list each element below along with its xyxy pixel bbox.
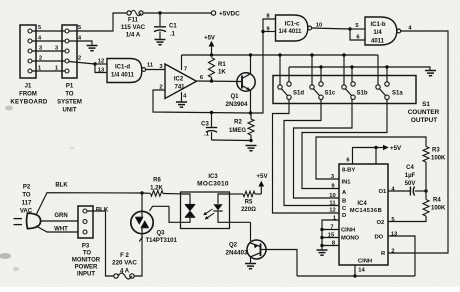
junction node C1 tap	[158, 11, 161, 14]
wire C4 to R3/R4 node	[415, 190, 426, 192]
svg-text:5: 5	[78, 25, 81, 31]
resistor R1	[209, 58, 215, 82]
pin label 7	[330, 225, 333, 231]
svg-text:MOC3010: MOC3010	[197, 181, 229, 188]
pin label 4	[408, 26, 412, 32]
svg-text:2N3904: 2N3904	[225, 101, 248, 108]
label CINH bottom	[358, 259, 372, 265]
junction pin15	[320, 236, 323, 239]
connector J1 pins	[28, 29, 32, 73]
label C4 1uF 50V	[405, 165, 416, 187]
svg-text:2: 2	[78, 56, 81, 62]
svg-text:IC1-b: IC1-b	[371, 22, 386, 28]
pin label 3	[159, 64, 163, 70]
phototriac in IC3	[185, 205, 195, 218]
wire J1-P1 row 2	[32, 60, 65, 62]
junction node BLK/R6/Q3	[140, 191, 143, 194]
svg-text:MONO: MONO	[341, 236, 360, 242]
svg-text:1: 1	[38, 66, 41, 72]
svg-text:741: 741	[174, 85, 185, 91]
supply arrow +5V at IC4	[376, 145, 402, 152]
pin label 13	[98, 68, 105, 74]
wire bus to Q2 base	[266, 250, 297, 277]
svg-text:.1: .1	[170, 32, 176, 38]
wire bus drop S1c right	[320, 67, 322, 82]
wire Q1 emitter down	[250, 91, 252, 114]
svg-text:1K: 1K	[218, 70, 226, 76]
nand gate IC1-c	[276, 15, 312, 41]
wire BLK hot	[36, 193, 142, 215]
svg-text:IN1: IN1	[342, 180, 352, 186]
label S1 COUNTER OUTPUT	[408, 101, 440, 124]
capacitor C1	[154, 27, 166, 39]
ground at P1 pin4	[87, 46, 98, 51]
wire IC4 grounded pins 1-7-15-8	[322, 220, 339, 250]
junction node C3 top	[210, 111, 213, 114]
wire Q3 MT2	[141, 193, 143, 234]
wire rail drop S1b left	[343, 55, 345, 85]
label F11 115 VAC 1/4 A	[121, 18, 146, 39]
wire IC3 led cathode out	[218, 211, 230, 222]
label GRN	[54, 213, 67, 219]
plug P2	[14, 213, 41, 228]
junction node IC1-d input	[93, 62, 96, 65]
svg-text:CINH: CINH	[341, 228, 355, 234]
switch S1b	[342, 82, 368, 100]
label C1 .1	[169, 24, 177, 38]
wire S1a common to IC4 A	[302, 100, 387, 189]
svg-text:2: 2	[39, 56, 42, 62]
label R5 220ohm	[241, 200, 256, 214]
triac Q3 T14PT3101	[131, 211, 153, 233]
wire F2 to Q3	[134, 234, 142, 276]
svg-text:S1d: S1d	[293, 91, 304, 97]
label R1 1K	[218, 62, 226, 76]
wire Q2 collector to ground	[250, 257, 252, 263]
junction node IC1-c pins	[261, 30, 264, 33]
svg-text:1MEG: 1MEG	[229, 128, 246, 134]
junction bus S1c	[319, 65, 322, 68]
svg-text:+5V: +5V	[256, 173, 268, 180]
svg-text:Q1: Q1	[230, 94, 239, 100]
junction node R2 bottom	[249, 139, 252, 142]
wire +5V rail	[182, 54, 379, 56]
connector P3 pins	[83, 209, 87, 234]
svg-text:+5V: +5V	[204, 36, 215, 42]
svg-text:SYSTEM: SYSTEM	[57, 100, 82, 106]
label Q2 2N4403	[225, 243, 248, 257]
svg-text:T14PT3101: T14PT3101	[146, 238, 178, 244]
label R2 1MEG	[229, 120, 246, 135]
svg-text:S1: S1	[422, 101, 430, 108]
terminal +5VDC	[211, 11, 240, 18]
label DO	[375, 235, 384, 241]
svg-text:2N4403: 2N4403	[225, 250, 248, 257]
capacitor C4	[410, 187, 414, 196]
svg-text:220Ω: 220Ω	[241, 207, 256, 213]
svg-text:.1: .1	[204, 132, 210, 138]
label CINH left	[341, 228, 355, 234]
wire IC2 pin7 to +5V rail	[181, 55, 183, 70]
resistor R6	[142, 191, 181, 197]
wire IC1-b pin6 bracket	[350, 29, 365, 40]
svg-text:F11: F11	[128, 18, 139, 24]
wire IC2 pin4 to ground	[181, 92, 183, 102]
pin label 12	[98, 59, 104, 65]
svg-text:D: D	[342, 213, 346, 219]
pin label 9	[266, 27, 270, 33]
ground below Q2	[245, 264, 256, 269]
pin labels J1 side	[38, 25, 42, 72]
svg-text:P2: P2	[23, 185, 31, 191]
wire S1d common to IC4 D	[273, 100, 340, 214]
wire IC2 output pin6	[197, 80, 243, 83]
svg-text:+5V: +5V	[390, 145, 402, 152]
pin label 6	[346, 158, 350, 164]
wire IC1-c pin9 stub	[263, 31, 276, 33]
svg-text:DO: DO	[375, 235, 384, 241]
wire R3 to IC4 IN1	[316, 137, 426, 179]
fuse F2	[114, 273, 134, 279]
pin label 14	[358, 268, 365, 274]
wire IC3 right top internal	[218, 194, 230, 204]
label R	[381, 251, 386, 257]
label R6 1.2K	[150, 178, 163, 192]
junction node Q1 collector rail	[249, 53, 252, 56]
svg-text:3: 3	[55, 46, 58, 52]
junction node pin14	[353, 274, 356, 277]
capacitor C3	[206, 128, 217, 141]
svg-text:UNIT: UNIT	[63, 108, 77, 114]
svg-text:11: 11	[147, 63, 154, 69]
label IN1	[342, 180, 352, 186]
wire IC1-d pin 13	[95, 64, 107, 73]
label P1 TO SYSTEM UNIT	[57, 84, 82, 114]
wire J1-P1 row 1	[32, 70, 65, 72]
junction bus S1a	[385, 65, 388, 68]
svg-text:MONITOR: MONITOR	[72, 258, 101, 264]
svg-text:IC2: IC2	[174, 77, 184, 83]
label IC2 741	[174, 77, 185, 91]
ground at switch bus	[425, 71, 436, 76]
ground below C1	[155, 40, 166, 45]
svg-text:1/4 4011: 1/4 4011	[111, 73, 135, 79]
svg-text:IC3: IC3	[208, 174, 218, 180]
wire C3 bottom to R2 bottom	[212, 139, 252, 142]
pin label 10	[329, 193, 335, 199]
pin label 13	[391, 232, 398, 238]
wire IC1-b pin5 stub	[350, 28, 365, 30]
wire bus drop S1a right	[386, 67, 388, 82]
wire pin14 bus	[297, 275, 415, 277]
wire Q2 emitter from IC3	[250, 222, 252, 241]
svg-text:KEYBOARD: KEYBOARD	[10, 99, 48, 106]
svg-text:3: 3	[39, 46, 42, 52]
label J1 FROM KEYBOARD	[10, 84, 48, 106]
wire IC1-b output to IC4 pin2	[388, 31, 448, 253]
wire IC1-c output to IC1-b	[312, 28, 350, 29]
svg-text:POWER: POWER	[75, 265, 98, 271]
wire S1c common to IC4 C	[284, 100, 339, 206]
wire rail drop S1d left	[279, 55, 281, 85]
svg-text:R2: R2	[234, 120, 242, 126]
svg-text:R5: R5	[245, 200, 253, 206]
svg-text:O2: O2	[377, 220, 385, 226]
svg-text:1µF: 1µF	[405, 173, 416, 179]
label C3 .1	[201, 122, 209, 138]
wire C3 upper lead	[211, 113, 213, 127]
svg-text:B: B	[342, 199, 346, 205]
ic IC4 MC14536B box	[339, 164, 388, 265]
svg-text:220 VAC: 220 VAC	[112, 260, 137, 267]
connector P3 box	[78, 206, 93, 238]
wire GRN	[40, 220, 78, 222]
svg-text:IC1-d: IC1-d	[115, 65, 130, 71]
switch S1a	[376, 82, 404, 100]
wire fuse to +5VDC terminal	[143, 12, 211, 14]
pin label 2	[391, 249, 394, 255]
label 8-BY	[342, 168, 355, 174]
svg-text:4011: 4011	[371, 39, 385, 45]
label P3 TO MONITOR POWER INPUT	[72, 244, 101, 278]
svg-text:S1a: S1a	[392, 91, 403, 97]
label IC3 MOC3010	[197, 174, 229, 188]
wire WHT	[36, 226, 78, 232]
pin label 3	[331, 174, 335, 180]
svg-text:50V: 50V	[405, 181, 416, 187]
svg-text:1.2K: 1.2K	[150, 185, 163, 191]
pin labels P1 side	[55, 25, 82, 72]
junction node +5V pin16	[374, 146, 377, 149]
supply arrow +5V at R5	[256, 173, 268, 187]
label P2 TO 117 VAC	[20, 185, 33, 215]
svg-text:Q2: Q2	[229, 243, 238, 249]
transistor Q2 2N4403	[247, 240, 266, 259]
wire ground bus of switches	[289, 67, 430, 70]
svg-text:R4: R4	[433, 198, 441, 204]
svg-text:F 2: F 2	[120, 253, 129, 259]
label BLK	[55, 183, 68, 189]
wire IC4 pin6 to +5V	[353, 148, 377, 165]
wire IC1-d pin 12	[95, 63, 107, 65]
fuse F11	[127, 10, 143, 16]
svg-text:10: 10	[329, 193, 335, 199]
switch S1c	[310, 82, 336, 100]
resistor R3	[423, 147, 429, 192]
svg-text:IC4: IC4	[357, 201, 367, 207]
svg-text:2: 2	[391, 249, 394, 255]
svg-text:12: 12	[98, 59, 104, 65]
svg-text:C3: C3	[201, 122, 209, 128]
label D	[342, 213, 346, 219]
junction node emitter feedback	[249, 111, 252, 114]
svg-text:13: 13	[391, 232, 398, 238]
pin label 7	[184, 67, 187, 73]
label R4 100K	[431, 198, 446, 212]
pin label 8	[332, 241, 336, 247]
svg-text:R6: R6	[153, 178, 161, 184]
pin label 5	[391, 217, 395, 223]
wire IC1-d output to IC2 pin3	[146, 69, 165, 71]
svg-text:COUNTER: COUNTER	[408, 109, 440, 116]
svg-text:1: 1	[55, 66, 58, 72]
wire IC3 to Q2	[230, 221, 251, 223]
wire IC3 left top internal	[181, 194, 191, 204]
pin label 2	[159, 85, 162, 91]
pin label 15	[328, 233, 335, 239]
svg-text:INPUT: INPUT	[77, 272, 95, 278]
connector P1 (system unit) box	[62, 25, 77, 78]
pin label 4	[183, 94, 187, 100]
svg-text:11: 11	[329, 201, 336, 207]
wire J1-P1 row 5	[32, 30, 65, 32]
svg-text:BLK: BLK	[55, 183, 68, 189]
wire J1-P1 row 4	[32, 40, 65, 42]
label Q1 2N3904	[225, 94, 248, 108]
svg-text:P1: P1	[66, 84, 74, 90]
connector J1 (keyboard) box	[20, 25, 36, 78]
svg-text:13: 13	[98, 68, 105, 74]
svg-text:1/4: 1/4	[373, 30, 382, 36]
junction rail S1b	[342, 53, 345, 56]
resistor R4	[423, 191, 429, 216]
wire R5 to +5V arrow	[255, 186, 261, 194]
junction rail S1c	[310, 53, 313, 56]
nand gate IC1-b	[365, 17, 401, 45]
switch S1d	[278, 82, 305, 100]
junction node rail/R1	[210, 53, 213, 56]
label F2 220 VAC 4 A	[112, 253, 137, 275]
label IC1-b 1/4 4011	[371, 22, 386, 45]
led in IC3	[213, 204, 222, 211]
pin label 5	[355, 23, 359, 29]
label WHT	[54, 227, 68, 233]
svg-text:TO: TO	[65, 92, 74, 98]
wire IC4 pin14 stub	[354, 265, 356, 276]
pin label 1	[333, 215, 337, 221]
pin label 11	[329, 201, 336, 207]
nand gate IC1-d	[107, 59, 146, 83]
junction bus S1b	[350, 65, 353, 68]
wire J1-P1 row 3	[32, 50, 65, 52]
label IC4 MC14536B	[350, 201, 382, 214]
ground below R2	[246, 146, 257, 151]
pin label 6	[356, 35, 360, 41]
svg-text:S1b: S1b	[357, 91, 368, 97]
svg-text:S1c: S1c	[325, 91, 336, 97]
wire IC3 triac to gate pin	[181, 217, 191, 222]
label Q3 T14PT3101	[139, 231, 177, 245]
svg-text:OUTPUT: OUTPUT	[411, 117, 437, 124]
junction pin8	[320, 244, 323, 247]
pin label 6	[200, 75, 204, 81]
svg-text:4 A: 4 A	[120, 269, 130, 275]
svg-text:O1: O1	[379, 189, 388, 195]
wire P1 pin4 to ground	[69, 41, 92, 45]
junction node C4/R3/R4	[424, 189, 427, 192]
svg-text:IC1-c: IC1-c	[285, 22, 300, 28]
svg-text:115 VAC: 115 VAC	[121, 24, 146, 31]
wire IC3 to R5	[230, 193, 244, 195]
label IC1-c 1/4 4011	[278, 22, 302, 36]
label MONO	[341, 236, 360, 242]
svg-text:J1: J1	[25, 84, 32, 90]
wire bus drop S1d right	[288, 67, 290, 82]
svg-text:14: 14	[358, 268, 365, 274]
svg-text:R3: R3	[432, 148, 440, 154]
pin label 10	[316, 23, 322, 29]
wire IC2 pin2 feedback	[153, 90, 251, 113]
svg-text:WHT: WHT	[54, 227, 68, 233]
wire P1 pin5 to fuse F1	[69, 13, 127, 31]
label C	[342, 206, 347, 212]
svg-text:P3: P3	[82, 244, 90, 250]
label R3 100K	[431, 148, 446, 162]
svg-text:12: 12	[329, 208, 335, 214]
svg-text:1/4 4011: 1/4 4011	[278, 29, 302, 35]
wire rail corner drop S1a left	[377, 55, 379, 85]
dashed box S1	[273, 76, 416, 104]
op-amp IC2 741	[165, 64, 197, 99]
svg-text:Q3: Q3	[156, 231, 165, 237]
supply arrow +5V at rail	[204, 36, 215, 56]
svg-text:FROM: FROM	[19, 92, 37, 98]
wire Q1 collector to rail	[250, 55, 252, 74]
junction rail S1d	[278, 53, 281, 56]
pin label 12	[329, 208, 335, 214]
label O2	[377, 220, 385, 226]
light arrows	[203, 209, 214, 219]
wire IC1-c pin8 bracket	[263, 19, 276, 32]
svg-text:R1: R1	[218, 62, 226, 68]
wire C1 upper lead	[159, 13, 161, 26]
wire IC4 pin4 to C4	[388, 190, 410, 192]
svg-text:1/4 A: 1/4 A	[126, 32, 141, 39]
svg-text:5: 5	[38, 25, 41, 31]
resistor R2	[248, 113, 254, 141]
pin label 8	[266, 14, 270, 20]
label BLK at P3	[96, 208, 109, 214]
pin label 4	[391, 186, 395, 192]
junction node IC1-b input	[348, 27, 351, 30]
wire IC4 pin5 to R4 bottom	[388, 216, 426, 222]
svg-text:100K: 100K	[431, 206, 446, 212]
wire S1b common to IC4 B	[294, 100, 353, 199]
wire rail drop S1c left	[311, 55, 313, 85]
transistor Q1 2N3904	[237, 73, 255, 91]
pin label 11	[147, 63, 154, 69]
label B	[342, 199, 346, 205]
optocoupler IC3 box	[181, 192, 230, 229]
wire Q3 gate to IC3	[150, 206, 181, 222]
ground at IC4 input pins	[317, 250, 328, 255]
wire IC4 pin13 DO down	[388, 236, 415, 276]
svg-text:117: 117	[22, 201, 32, 207]
svg-text:TO: TO	[83, 251, 92, 257]
svg-text:C4: C4	[406, 165, 414, 171]
svg-text:TO: TO	[22, 193, 31, 199]
wire emitter node to IC1-c input	[251, 32, 263, 114]
svg-text:GRN: GRN	[54, 213, 67, 219]
junction pin7	[320, 228, 323, 231]
pin label 9	[331, 184, 335, 190]
svg-text:CINH: CINH	[358, 259, 372, 265]
svg-text:100K: 100K	[431, 156, 446, 162]
svg-text:+5VDC: +5VDC	[219, 11, 240, 18]
wire Q2 base right	[261, 249, 267, 251]
label IC1-d 1/4 4011	[111, 65, 135, 79]
wire pin16 drop	[375, 148, 377, 165]
